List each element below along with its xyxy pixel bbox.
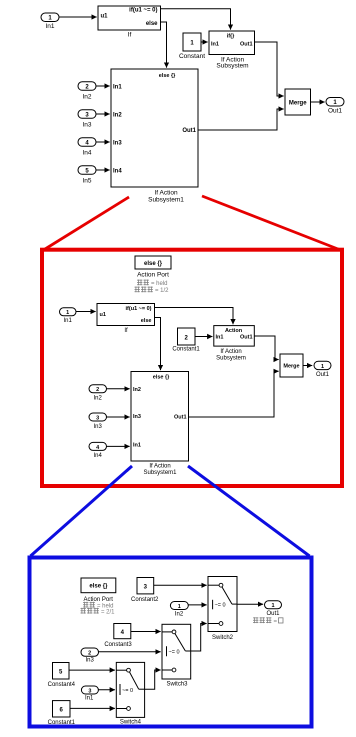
if block If red	[97, 304, 155, 335]
svg-text:In2: In2	[175, 612, 184, 618]
switch block Switch3	[162, 624, 191, 687]
wire In1 to If red	[76, 311, 96, 313]
svg-text:else: else	[146, 21, 158, 27]
svg-text:else: else	[141, 318, 152, 324]
svg-text:else {}: else {}	[144, 261, 163, 267]
svg-text:If Action: If Action	[220, 349, 241, 355]
svg-text:1: 1	[178, 604, 181, 610]
wire In2 to Switch2	[188, 604, 206, 606]
svg-text:In3: In3	[94, 424, 103, 430]
wire In3 to Switch3	[99, 651, 161, 653]
svg-text:else {}: else {}	[153, 375, 170, 381]
svg-text:2: 2	[96, 387, 99, 393]
svg-text:Out1: Out1	[174, 415, 187, 421]
action port block blue	[81, 578, 116, 603]
switch block Switch4	[116, 662, 144, 725]
wire In2 red	[107, 388, 130, 390]
svg-text:In3: In3	[82, 122, 91, 129]
svg-text:~= 0: ~= 0	[215, 603, 226, 609]
svg-text:~= 0: ~= 0	[122, 688, 133, 694]
svg-text:1: 1	[321, 364, 324, 370]
constant Constant	[179, 33, 205, 60]
input port In2 blue	[170, 602, 188, 618]
input port In2 red	[89, 385, 107, 402]
wire In3	[96, 113, 110, 115]
svg-text:Switch2: Switch2	[212, 635, 234, 641]
svg-text:u1: u1	[101, 14, 109, 20]
blue callout line left	[31, 466, 133, 556]
svg-text:If Action: If Action	[149, 464, 170, 470]
svg-text:Out1: Out1	[316, 372, 330, 378]
svg-text:Constant3: Constant3	[104, 642, 132, 648]
svg-text:~= 0: ~= 0	[169, 650, 180, 656]
svg-text:Switch3: Switch3	[166, 681, 188, 687]
svg-text:= 2/1: = 2/1	[101, 609, 115, 615]
wire Switch4 to Switch3	[145, 670, 161, 689]
annotation state held blue	[83, 602, 114, 610]
wire Constant1 to In1	[195, 336, 212, 338]
wire If Action Subsystem1 Out1 to Merge	[198, 109, 284, 130]
svg-text:2: 2	[88, 651, 91, 657]
wire Constant3 to Switch3	[131, 631, 161, 633]
action port block	[135, 256, 171, 279]
wire In4 red	[107, 445, 130, 447]
if block If	[98, 6, 161, 39]
input port In3	[78, 110, 96, 129]
wire In3 red	[107, 416, 130, 418]
svg-text:In2: In2	[113, 113, 122, 119]
red callout line left	[44, 197, 130, 250]
svg-text:Subsystem: Subsystem	[216, 356, 246, 362]
svg-text:= held: = held	[151, 281, 168, 287]
svg-text:In2: In2	[94, 396, 103, 402]
svg-text:In2: In2	[133, 387, 141, 393]
svg-text:Constant: Constant	[179, 53, 205, 60]
wire In1 to If	[59, 16, 97, 18]
svg-text:In1: In1	[45, 23, 54, 30]
svg-text:In2: In2	[82, 94, 91, 101]
svg-text:Action: Action	[225, 328, 243, 334]
svg-text:1: 1	[66, 310, 69, 316]
annotation state held	[137, 280, 168, 288]
merge block Merge	[285, 89, 311, 115]
input port In1 blue	[81, 686, 98, 702]
svg-text:Constant2: Constant2	[131, 597, 159, 603]
blue callout line right	[188, 466, 310, 556]
svg-text:Out1: Out1	[240, 335, 253, 341]
wire Switch3 to Switch2	[191, 624, 207, 652]
svg-text:If Action: If Action	[154, 190, 178, 197]
svg-text:=: =	[274, 619, 278, 625]
svg-text:Constant1: Constant1	[172, 347, 200, 353]
svg-text:Out1: Out1	[266, 611, 280, 617]
svg-text:In3: In3	[86, 657, 95, 663]
svg-text:Out1: Out1	[240, 42, 253, 48]
wire In4	[96, 141, 110, 143]
wire else output red	[155, 318, 161, 371]
svg-text:In1: In1	[113, 85, 122, 91]
wire Constant to In1	[201, 41, 208, 43]
svg-text:Merge: Merge	[283, 364, 299, 370]
blue callout box	[30, 558, 312, 727]
svg-text:Switch4: Switch4	[120, 720, 142, 726]
input port In4	[78, 138, 96, 157]
svg-text:Constant1: Constant1	[48, 720, 76, 726]
wire if output red	[155, 308, 234, 325]
input port In3 blue	[81, 648, 99, 663]
svg-text:If: If	[124, 328, 128, 334]
constant Constant1 blue	[48, 701, 76, 726]
red callout line right	[202, 196, 341, 250]
input port In5	[78, 166, 96, 185]
svg-text:else {}: else {}	[159, 73, 176, 79]
wire If Action Subsystem1 Out1 to Merge red	[189, 371, 279, 417]
svg-text:u1: u1	[100, 312, 106, 318]
constant Constant4	[48, 663, 76, 689]
constant Constant2	[131, 578, 159, 604]
switch block Switch2	[208, 577, 237, 641]
svg-text:if(u1 ~= 0): if(u1 ~= 0)	[126, 306, 152, 312]
svg-text:In3: In3	[133, 414, 141, 420]
svg-text:1: 1	[271, 603, 274, 609]
svg-text:In1: In1	[216, 335, 224, 341]
svg-text:In4: In4	[82, 150, 91, 157]
svg-text:= 1/2: = 1/2	[155, 288, 169, 294]
svg-text:In3: In3	[113, 141, 122, 147]
output port Out1 blue	[265, 601, 282, 617]
svg-text:In1: In1	[211, 42, 219, 48]
wire Constant4 to Switch4	[69, 669, 115, 671]
svg-text:In1: In1	[133, 443, 141, 449]
svg-text:In4: In4	[94, 453, 103, 459]
wire if output to If Action Subsystem	[161, 9, 231, 30]
subsystem If Action Subsystem1 red	[131, 372, 189, 477]
input port In1	[41, 13, 59, 30]
subsystem If Action Subsystem red	[214, 326, 255, 362]
svg-text:else {}: else {}	[89, 584, 108, 590]
input port In4 red	[89, 442, 107, 459]
annotation hierarchy 2/1 blue	[81, 608, 116, 616]
constant Constant1 red	[172, 328, 200, 353]
svg-text:Merge: Merge	[289, 101, 307, 107]
svg-text:Subsystem1: Subsystem1	[143, 470, 177, 476]
svg-text:Subsystem: Subsystem	[216, 62, 248, 69]
wire Merge to Out1	[311, 101, 325, 103]
annotation hierarchy 1/2	[135, 287, 170, 295]
svg-text:Constant4: Constant4	[48, 682, 76, 688]
svg-text:Out1: Out1	[182, 128, 196, 134]
svg-text:Subsystem1: Subsystem1	[148, 197, 184, 204]
svg-text:In1: In1	[85, 696, 94, 702]
svg-text:In1: In1	[64, 318, 73, 324]
subsystem If Action Subsystem1	[111, 69, 198, 204]
wire Constant2 to Switch2	[154, 584, 207, 586]
svg-text:In4: In4	[113, 169, 122, 175]
output port Out1	[326, 98, 344, 115]
wire In5	[96, 169, 110, 171]
input port In1 red	[60, 308, 77, 324]
wire else output to If Action Subsystem1	[161, 22, 167, 68]
svg-text:Action Port: Action Port	[137, 272, 169, 279]
subsystem If Action Subsystem	[209, 31, 255, 69]
wire In1 to Switch4	[98, 689, 115, 691]
annotation initial value blue	[253, 617, 283, 625]
red callout box	[42, 250, 342, 486]
wire If Action Subsystem Out1 to Merge red	[254, 336, 278, 360]
svg-text:Out1: Out1	[328, 108, 342, 115]
input port In2	[78, 82, 96, 101]
svg-text:If: If	[128, 32, 132, 39]
wire In2	[96, 85, 110, 87]
svg-text:if(u1 ~= 0): if(u1 ~= 0)	[129, 7, 157, 13]
wire Constant1 to Switch4	[70, 707, 115, 709]
wire Merge to Out1 red	[303, 365, 312, 367]
svg-text:if{}: if{}	[227, 34, 236, 40]
svg-text:3: 3	[88, 688, 91, 694]
svg-text:3: 3	[96, 415, 99, 421]
constant Constant3	[104, 624, 132, 649]
wire If Action Subsystem Out1 to Merge	[255, 42, 284, 96]
merge block Merge red	[280, 354, 303, 377]
svg-text:In5: In5	[82, 178, 91, 185]
wire Switch2 to Out1	[237, 603, 263, 605]
output port Out1 red	[314, 361, 331, 378]
input port In3 red	[89, 413, 107, 430]
